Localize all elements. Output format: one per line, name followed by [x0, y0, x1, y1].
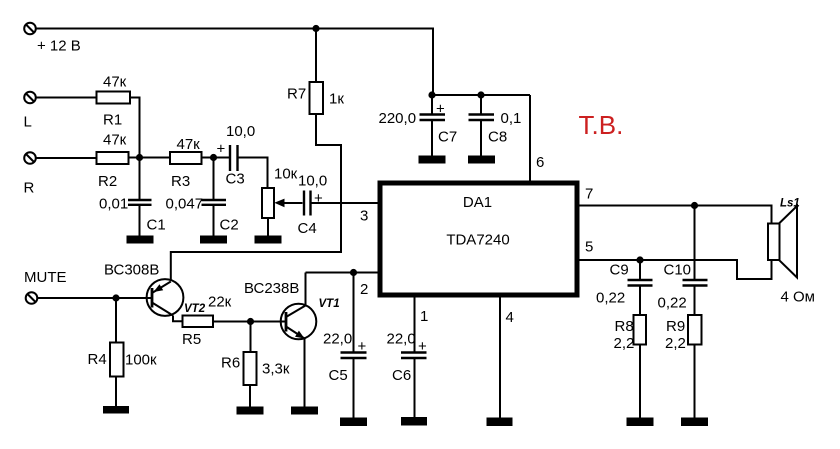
- speaker Ls1: [768, 206, 797, 278]
- wire VT2 collector to R5: [173, 316, 183, 322]
- wire C4 to pin3: [312, 202, 379, 204]
- svg-text:R6: R6: [221, 355, 240, 372]
- svg-text:+ 12 В: + 12 В: [37, 38, 81, 55]
- potentiometer 10k: [262, 188, 274, 218]
- ground pin4: [487, 418, 513, 427]
- capacitor C10: [683, 206, 708, 316]
- wire node A to R3: [140, 157, 171, 159]
- terminal R: [24, 152, 36, 164]
- svg-text:R9: R9: [666, 318, 685, 335]
- svg-text:R5: R5: [182, 331, 201, 348]
- wire pot to ground: [267, 218, 269, 236]
- ground C7: [419, 156, 446, 164]
- svg-text:1: 1: [420, 308, 428, 325]
- svg-text:L: L: [24, 114, 32, 131]
- wire VT1 emitter to ground: [304, 339, 306, 408]
- svg-text:Т.В.: Т.В.: [579, 110, 624, 140]
- svg-text:10,0: 10,0: [226, 123, 255, 140]
- ground C5: [340, 418, 367, 427]
- capacitor C4: [304, 191, 311, 216]
- node C5 junction: [350, 269, 357, 276]
- svg-text:5: 5: [585, 239, 593, 256]
- wire R6 bottom: [249, 385, 251, 407]
- svg-text:MUTE: MUTE: [24, 269, 67, 286]
- capacitor C1: [128, 158, 152, 237]
- node C7 junction: [428, 91, 435, 98]
- terminal L: [24, 92, 36, 104]
- svg-text:C2: C2: [220, 217, 239, 234]
- svg-text:10,0: 10,0: [298, 173, 327, 190]
- svg-text:+: +: [358, 338, 367, 355]
- wire pin6: [529, 95, 531, 183]
- svg-text:7: 7: [585, 186, 593, 203]
- wire R7 top: [315, 29, 317, 83]
- ground R8: [627, 418, 654, 427]
- svg-text:C3: C3: [226, 171, 245, 188]
- capacitor C6: [401, 353, 427, 419]
- wire R4 bottom: [115, 377, 117, 407]
- terminal MUTE: [26, 292, 38, 304]
- transistor VT2: [147, 279, 184, 316]
- capacitor C9: [628, 260, 653, 315]
- terminal +12V: [24, 23, 36, 35]
- wire C3 to pot: [239, 158, 268, 189]
- wire R3 to node B: [202, 157, 214, 159]
- svg-text:1к: 1к: [329, 91, 344, 108]
- resistor R7: [310, 82, 324, 114]
- ground R6: [237, 407, 264, 415]
- svg-text:3,3к: 3,3к: [262, 361, 290, 378]
- svg-text:C1: C1: [147, 217, 166, 234]
- svg-text:ВС238В: ВС238В: [244, 280, 299, 297]
- resistor R4: [110, 343, 124, 377]
- wire C7C8 rail: [433, 94, 530, 96]
- svg-text:2,2: 2,2: [665, 335, 686, 352]
- wire pin5 to speaker: [577, 260, 772, 279]
- wire R7 bottom to VT2 emitter: [171, 114, 341, 281]
- ground C6: [401, 417, 427, 426]
- svg-text:+: +: [314, 190, 323, 207]
- resistor R1: [97, 92, 131, 104]
- svg-text:3: 3: [360, 208, 368, 225]
- svg-text:R: R: [24, 180, 35, 197]
- wire pin2: [306, 272, 379, 274]
- node C10 junction: [691, 202, 698, 209]
- node VT1 base junction: [247, 318, 254, 325]
- svg-text:R4: R4: [88, 351, 107, 368]
- svg-text:R3: R3: [171, 173, 190, 190]
- svg-text:C9: C9: [610, 262, 629, 279]
- svg-text:47к: 47к: [103, 132, 127, 149]
- ground C2: [200, 236, 227, 244]
- capacitor C7: [420, 95, 446, 156]
- ground C1: [127, 236, 154, 244]
- svg-text:VT2: VT2: [184, 303, 206, 315]
- resistor R8: [634, 315, 647, 345]
- svg-text:0,22: 0,22: [596, 290, 625, 307]
- wire pin4: [499, 295, 501, 418]
- wire VT1 collector: [305, 273, 307, 306]
- svg-text:R8: R8: [615, 318, 634, 335]
- svg-text:C10: C10: [664, 262, 692, 279]
- svg-text:2,2: 2,2: [614, 335, 635, 352]
- wire R1 to node A: [130, 98, 140, 158]
- svg-text:100к: 100к: [125, 352, 157, 369]
- svg-text:Ls1: Ls1: [780, 198, 800, 210]
- ground R9: [681, 418, 708, 427]
- svg-text:0,22: 0,22: [658, 295, 687, 312]
- svg-text:0,01: 0,01: [99, 196, 128, 213]
- svg-text:220,0: 220,0: [379, 110, 417, 127]
- svg-text:0,047: 0,047: [166, 196, 204, 213]
- capacitor C5: [341, 273, 367, 419]
- wire R9 bottom: [694, 345, 696, 419]
- svg-text:C8: C8: [488, 129, 507, 146]
- svg-text:10к: 10к: [274, 166, 298, 183]
- svg-text:4: 4: [506, 309, 514, 326]
- transistor VT1: [281, 304, 317, 340]
- svg-text:R7: R7: [287, 86, 306, 103]
- svg-text:+: +: [418, 338, 427, 355]
- wire wiper arrow: [274, 199, 302, 208]
- resistor R6: [244, 352, 257, 385]
- wire R6 top: [250, 322, 252, 353]
- wire L input: [36, 97, 97, 99]
- svg-text:47к: 47к: [177, 136, 201, 153]
- svg-text:C6: C6: [392, 367, 411, 384]
- wire R2 to node A: [129, 157, 140, 159]
- ground R4: [103, 406, 129, 414]
- svg-text:R1: R1: [103, 112, 122, 129]
- capacitor C3: [214, 145, 238, 171]
- svg-text:22,0: 22,0: [387, 331, 416, 348]
- svg-text:2: 2: [360, 281, 368, 298]
- op-amp DA1 TDA7240: [380, 183, 577, 295]
- node R4 junction: [112, 294, 119, 301]
- svg-text:+: +: [436, 101, 445, 118]
- svg-text:C7: C7: [438, 129, 457, 146]
- svg-text:TDA7240: TDA7240: [446, 232, 509, 249]
- node R7 top junction: [312, 25, 319, 32]
- wire R4 top: [115, 298, 117, 343]
- resistor R3: [170, 152, 202, 164]
- wire R input: [36, 157, 97, 159]
- ground pot: [255, 236, 282, 244]
- svg-text:+: +: [217, 141, 226, 158]
- resistor R5: [183, 316, 214, 328]
- wire MUTE to VT2 base: [38, 297, 153, 299]
- wire +12V rail: [36, 29, 433, 96]
- svg-text:DA1: DA1: [463, 194, 492, 211]
- svg-text:4 Ом: 4 Ом: [781, 289, 816, 306]
- resistor R2: [97, 152, 129, 164]
- svg-text:VT1: VT1: [319, 298, 340, 310]
- wire VT1 base: [251, 321, 287, 323]
- capacitor C2: [202, 158, 227, 237]
- svg-text:C5: C5: [329, 367, 348, 384]
- node C9 junction: [636, 256, 643, 263]
- wire R8 bottom: [639, 345, 641, 419]
- node C8 junction: [477, 91, 484, 98]
- svg-text:22,0: 22,0: [323, 331, 352, 348]
- node A: [136, 154, 143, 161]
- svg-text:C4: C4: [298, 220, 317, 237]
- wire R5 to VT1 base: [213, 321, 251, 323]
- svg-text:22к: 22к: [208, 294, 232, 311]
- wire pin1: [414, 295, 416, 352]
- ground C8: [468, 156, 495, 164]
- svg-text:0,1: 0,1: [501, 110, 522, 127]
- svg-text:ВС308В: ВС308В: [104, 262, 159, 279]
- ground VT1: [291, 407, 318, 415]
- svg-text:6: 6: [536, 154, 544, 171]
- node B: [210, 154, 217, 161]
- svg-text:47к: 47к: [103, 74, 127, 91]
- capacitor C8: [469, 95, 495, 156]
- resistor R9: [688, 315, 702, 345]
- svg-text:R2: R2: [98, 173, 117, 190]
- wire pin7 to speaker: [577, 206, 772, 224]
